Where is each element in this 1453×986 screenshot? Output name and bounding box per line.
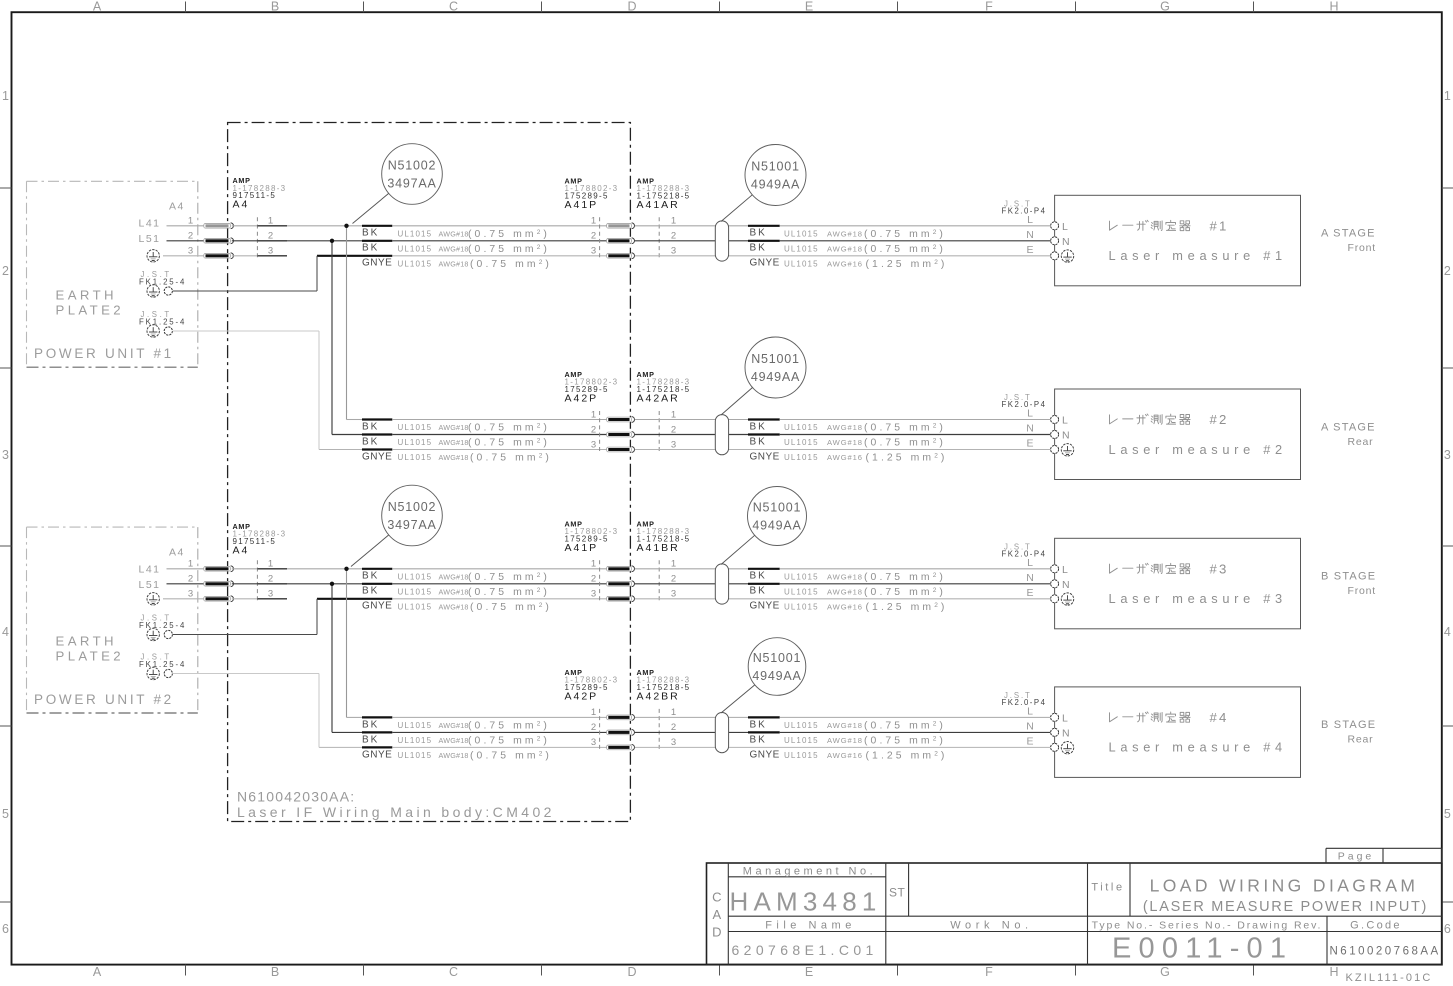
svg-text:UL1015: UL1015 <box>398 453 433 462</box>
svg-text:HAM3481: HAM3481 <box>730 887 882 917</box>
connector A4 circuit 1: mating separator dashed line <box>256 217 258 260</box>
svg-text:N51002: N51002 <box>388 159 437 173</box>
wire L circuit 4 to laser measure unit <box>635 716 1051 718</box>
svg-text:Type No.- Series No.- Drawing: Type No.- Series No.- Drawing Rev. <box>1092 919 1323 931</box>
connector A41P AMP part labels <box>565 176 619 211</box>
svg-text:3: 3 <box>671 246 676 257</box>
svg-text:GNYE: GNYE <box>750 258 780 269</box>
connector A42P/A42AR pin numbers <box>591 409 676 450</box>
svg-text:PLATE2: PLATE2 <box>56 648 125 663</box>
wire labels circuit 1 right side <box>750 228 948 270</box>
connector A41AR separator dashed line <box>658 217 660 260</box>
wire L41 stub circuit 1 <box>167 225 204 227</box>
svg-text:C: C <box>449 965 458 979</box>
connector A4 (power unit) circuit 1: labels <box>139 201 185 246</box>
svg-text:Title: Title <box>1091 881 1124 893</box>
svg-text:Page: Page <box>1338 850 1375 862</box>
svg-text:AWG#18: AWG#18 <box>439 259 469 268</box>
inner pin labels unit #4 <box>1062 712 1070 739</box>
earth wire from ring terminal 1 <box>173 599 317 635</box>
svg-text:GNYE: GNYE <box>750 451 780 462</box>
svg-text:AWG#18: AWG#18 <box>439 244 469 253</box>
svg-text:2: 2 <box>591 722 596 733</box>
balloon N51001 4949AA circuit 1 <box>721 145 806 222</box>
svg-text:UL1015: UL1015 <box>398 438 433 447</box>
cable marker oval circuit 2 <box>715 415 728 455</box>
svg-text:UL1015: UL1015 <box>784 423 819 432</box>
svg-text:1: 1 <box>671 559 676 570</box>
svg-text:BK: BK <box>750 734 767 745</box>
connector J.S.T FK2.0-P4 labels unit #2 <box>1002 393 1047 409</box>
svg-text:1: 1 <box>268 559 273 570</box>
svg-text:#2: #2 <box>1210 412 1229 427</box>
wire E circuit 2: GNYE thick segment <box>362 448 392 450</box>
branch wire L vertical <box>346 226 348 420</box>
svg-text:L: L <box>1027 557 1033 569</box>
svg-text:FK1.25-4: FK1.25-4 <box>139 660 186 669</box>
svg-text:4949AA: 4949AA <box>751 370 800 384</box>
wire E circuit 2 to laser measure unit <box>635 449 1051 451</box>
svg-text:F: F <box>985 0 993 14</box>
svg-text:AWG#16: AWG#16 <box>827 259 863 268</box>
wire N circuit 2 from branch corner <box>332 434 362 436</box>
connector A4 circuit 3: contact bars <box>204 566 234 602</box>
svg-text:AWG#18: AWG#18 <box>827 423 863 432</box>
earth ring terminal J.S.T FK1.25-4 (2) <box>139 653 186 680</box>
wires through connector A4 circuit 1 <box>232 226 287 256</box>
wire earth stub circuit 1 <box>163 255 204 257</box>
wire N circuit 1: BK thick segment <box>362 240 392 242</box>
svg-text:AWG#18: AWG#18 <box>439 438 469 447</box>
svg-text:FK1.25-4: FK1.25-4 <box>139 318 186 327</box>
svg-text:B STAGE: B STAGE <box>1321 571 1376 583</box>
wire E circuit 1: GNYE thick segment <box>317 255 392 257</box>
svg-text:N: N <box>1062 430 1070 442</box>
svg-text:2: 2 <box>268 231 273 242</box>
earth symbol unit #3 <box>1061 593 1073 605</box>
power unit #2 enclosure (dash-dot box) <box>27 527 198 713</box>
svg-text:B STAGE: B STAGE <box>1321 719 1376 731</box>
connector A42P AMP part labels <box>565 370 619 405</box>
svg-text:1: 1 <box>188 559 193 570</box>
connector A42P AMP part labels <box>565 668 619 703</box>
title block page cell <box>1326 848 1442 863</box>
wire L circuit 4 from branch corner <box>347 716 363 718</box>
svg-text:AWG#18: AWG#18 <box>827 438 863 447</box>
svg-text:FK2.0-P4: FK2.0-P4 <box>1002 400 1047 409</box>
wire L circuit 3 to junction <box>287 568 362 570</box>
earth ring terminal J.S.T FK1.25-4 (1) <box>139 614 186 641</box>
unit #4 name text <box>1109 710 1287 755</box>
svg-text:L: L <box>1062 564 1068 576</box>
svg-text:AWG#18: AWG#18 <box>439 721 469 730</box>
stage label unit #4 <box>1321 719 1376 746</box>
svg-text:1: 1 <box>591 216 596 227</box>
svg-text:3: 3 <box>268 246 273 257</box>
svg-text:C: C <box>449 0 458 14</box>
svg-text:AWG#18: AWG#18 <box>439 572 469 581</box>
svg-text:AWG#18: AWG#18 <box>439 453 469 462</box>
svg-text:G: G <box>1160 0 1170 14</box>
svg-text:4949AA: 4949AA <box>751 178 800 192</box>
laser measure unit #2 box <box>1055 389 1301 480</box>
svg-text:A4: A4 <box>233 544 250 556</box>
cable marker oval circuit 1 <box>715 221 728 261</box>
svg-text:AWG#18: AWG#18 <box>827 229 863 238</box>
wire E circuit 3 to connector A41P <box>392 598 606 600</box>
wire E circuit 1 to laser measure unit <box>635 255 1051 257</box>
svg-text:L: L <box>1027 214 1033 226</box>
svg-text:UL1015: UL1015 <box>784 751 819 760</box>
svg-text:N: N <box>1062 727 1070 739</box>
laser measure unit #1 box <box>1055 195 1301 285</box>
svg-text:L: L <box>1062 221 1068 233</box>
svg-text:BK: BK <box>750 719 767 730</box>
wire labels circuit 3 right side <box>750 571 948 613</box>
junction dot wire L <box>344 567 348 571</box>
svg-text:1: 1 <box>671 409 676 420</box>
wire N circuit 4: BK thick segment <box>362 731 392 733</box>
branch wire N vertical <box>331 584 333 733</box>
svg-text:N51001: N51001 <box>751 160 800 174</box>
svg-text:EARTH: EARTH <box>56 633 117 648</box>
terminal circles unit #3 <box>1051 565 1059 603</box>
svg-text:2: 2 <box>188 231 193 242</box>
svg-text:UL1015: UL1015 <box>398 751 433 760</box>
svg-text:N: N <box>1026 229 1034 241</box>
wire E circuit 4: GNYE thick segment <box>362 746 392 748</box>
svg-text:E: E <box>1026 736 1033 748</box>
stage label unit #2 <box>1321 421 1376 448</box>
connector A42BR AMP part labels <box>637 668 691 703</box>
connector A41P/A41BR pin numbers <box>591 559 676 600</box>
svg-text:3: 3 <box>188 589 193 600</box>
svg-text:4: 4 <box>2 625 9 639</box>
wire L circuit 1 to junction <box>287 225 362 227</box>
svg-text:1: 1 <box>2 89 9 103</box>
connector A4 circuit 1: pin numbers <box>188 216 273 257</box>
svg-text:BK: BK <box>362 719 379 730</box>
inner pin labels unit #2 <box>1062 415 1070 442</box>
svg-text:UL1015: UL1015 <box>784 721 819 730</box>
balloon N51002 3497AA circuit 3 <box>351 485 442 566</box>
svg-text:FK2.0-P4: FK2.0-P4 <box>1002 698 1047 707</box>
svg-text:UL1015: UL1015 <box>398 259 433 268</box>
power unit #1 labels <box>34 288 174 362</box>
svg-text:AWG#18: AWG#18 <box>827 244 863 253</box>
svg-text:BK: BK <box>750 243 767 254</box>
wire labels circuit 2 left side <box>362 421 552 463</box>
svg-text:EARTH: EARTH <box>56 288 117 303</box>
connector A42P separator dashed line <box>599 709 601 752</box>
connector J.S.T FK2.0-P4 labels unit #1 <box>1002 199 1047 215</box>
pin letters L N E unit #1 <box>1026 214 1034 256</box>
connector A4 circuit 1: contact bars <box>204 223 234 259</box>
power unit #1 enclosure (dash-dot box) <box>27 181 198 367</box>
earth wire from ring terminal 1 <box>173 256 317 291</box>
svg-text:BK: BK <box>362 571 379 582</box>
svg-text:AWG#18: AWG#18 <box>439 736 469 745</box>
svg-text:#1: #1 <box>1210 218 1229 233</box>
svg-text:4949AA: 4949AA <box>752 519 801 533</box>
svg-text:Laser measure #3: Laser measure #3 <box>1109 591 1287 606</box>
connector A4 circuit 3: AMP part labels <box>233 522 287 557</box>
connector A42P/A42BR pin numbers <box>591 707 676 748</box>
balloon N51001 4949AA circuit 2 <box>721 337 806 415</box>
cable marker oval circuit 3 <box>715 564 728 604</box>
connector A4 (power unit) circuit 3: labels <box>139 546 185 591</box>
svg-text:Laser measure #2: Laser measure #2 <box>1109 442 1287 457</box>
earth symbol at pin 3 circuit 3 <box>147 593 159 605</box>
wire L circuit 1 to laser measure unit <box>635 225 1051 227</box>
svg-text:Work No.: Work No. <box>950 920 1032 932</box>
connector A42P contact bars <box>607 715 635 751</box>
earth wire from ring terminal 2 <box>173 674 319 748</box>
svg-text:POWER UNIT #1: POWER UNIT #1 <box>34 346 174 361</box>
svg-text:3: 3 <box>591 589 596 600</box>
pin letters L N E unit #2 <box>1026 408 1034 450</box>
svg-text:GNYE: GNYE <box>750 749 780 760</box>
wire L circuit 3 to connector A41P <box>392 568 606 570</box>
svg-text:H: H <box>1329 965 1338 979</box>
svg-text:A4: A4 <box>233 199 250 211</box>
wire E circuit 4 to connector A42P <box>392 746 606 748</box>
wire earth stub circuit 3 <box>163 598 204 600</box>
wire L circuit 2 from branch corner <box>347 419 363 421</box>
svg-text:UL1015: UL1015 <box>398 587 433 596</box>
enclosure N610042030AA Laser IF Wiring Main body CM402 (chain-line box) <box>228 123 631 822</box>
wire L51 stub circuit 3 <box>167 583 204 585</box>
svg-text:5: 5 <box>1444 807 1451 821</box>
svg-text:A42P: A42P <box>565 393 599 405</box>
svg-text:UL1015: UL1015 <box>398 602 433 611</box>
svg-text:BK: BK <box>362 586 379 597</box>
terminal circles unit #2 <box>1051 416 1059 454</box>
svg-text:H: H <box>1329 0 1338 14</box>
pin letters L N E unit #4 <box>1026 706 1034 748</box>
svg-text:4949AA: 4949AA <box>752 669 801 683</box>
svg-text:6: 6 <box>1444 922 1451 936</box>
wire labels circuit 1 left side <box>362 228 552 270</box>
svg-text:AWG#18: AWG#18 <box>439 602 469 611</box>
svg-text:3: 3 <box>188 246 193 257</box>
wire E circuit 1 to connector A41P <box>392 255 606 257</box>
svg-text:GNYE: GNYE <box>750 601 780 612</box>
svg-text:A42P: A42P <box>565 690 599 702</box>
wire L circuit 1: BK thick segment <box>362 225 392 227</box>
svg-text:A: A <box>93 965 102 979</box>
wire E circuit 3: GNYE thick segment <box>317 598 392 600</box>
pin letters L N E unit #3 <box>1026 557 1034 599</box>
wire N circuit 4 to connector A42P <box>392 731 606 733</box>
svg-text:2: 2 <box>2 264 9 278</box>
svg-text:N51002: N51002 <box>388 500 437 514</box>
power unit #2 labels <box>34 633 174 707</box>
svg-text:A4: A4 <box>169 546 185 558</box>
svg-text:AWG#16: AWG#16 <box>827 453 863 462</box>
svg-text:4: 4 <box>1444 625 1451 639</box>
svg-text:GNYE: GNYE <box>362 601 392 612</box>
balloon N51001 4949AA circuit 4 <box>721 638 806 713</box>
svg-text:2: 2 <box>1444 264 1451 278</box>
earth symbol at pin 3 circuit 1 <box>147 250 159 262</box>
svg-text:UL1015: UL1015 <box>784 438 819 447</box>
svg-text:KZIL111-01C: KZIL111-01C <box>1346 972 1433 984</box>
cable marker oval circuit 4 <box>715 713 728 753</box>
svg-text:3: 3 <box>591 439 596 450</box>
svg-text:AWG#18: AWG#18 <box>439 587 469 596</box>
svg-text:Management No.: Management No. <box>743 866 876 878</box>
svg-text:N: N <box>1062 236 1070 248</box>
connector J.S.T FK2.0-P4 labels unit #4 <box>1002 691 1047 707</box>
svg-text:File Name: File Name <box>765 920 856 932</box>
svg-text:A: A <box>712 907 721 922</box>
junction dot wire N <box>330 582 334 586</box>
svg-text:E: E <box>805 0 813 14</box>
svg-text:L51: L51 <box>139 579 161 591</box>
svg-text:AWG#18: AWG#18 <box>439 423 469 432</box>
connector A41P separator dashed line <box>599 560 601 603</box>
svg-text:1: 1 <box>188 216 193 227</box>
svg-text:N51001: N51001 <box>753 501 802 515</box>
wire L circuit 3 to laser measure unit <box>635 568 1051 570</box>
svg-text:UL1015: UL1015 <box>398 572 433 581</box>
svg-text:3: 3 <box>591 246 596 257</box>
svg-text:L: L <box>1027 706 1033 718</box>
connector A4 circuit 3: mating separator dashed line <box>256 560 258 603</box>
wires through connector A4 circuit 3 <box>232 569 287 599</box>
svg-text:AWG#18: AWG#18 <box>827 721 863 730</box>
svg-text:UL1015: UL1015 <box>784 229 819 238</box>
svg-text:2: 2 <box>671 574 676 585</box>
svg-text:BK: BK <box>750 586 767 597</box>
svg-text:BK: BK <box>362 421 379 432</box>
wire N circuit 2: BK thick segment <box>362 433 392 435</box>
wire N circuit 3 to laser measure unit <box>635 583 1051 585</box>
svg-text:N51001: N51001 <box>751 352 800 366</box>
svg-text:AWG#18: AWG#18 <box>827 587 863 596</box>
svg-text:LOAD WIRING DIAGRAM: LOAD WIRING DIAGRAM <box>1150 876 1419 896</box>
svg-text:UL1015: UL1015 <box>784 259 819 268</box>
connector A41P contact bars <box>607 566 635 602</box>
svg-text:2: 2 <box>671 231 676 242</box>
svg-text:GNYE: GNYE <box>362 749 392 760</box>
svg-text:2: 2 <box>591 574 596 585</box>
svg-text:UL1015: UL1015 <box>398 736 433 745</box>
wire L circuit 1 to connector A41P <box>392 225 606 227</box>
svg-text:N610042030AA:: N610042030AA: <box>237 789 355 805</box>
svg-text:N51001: N51001 <box>753 651 802 665</box>
svg-text:3497AA: 3497AA <box>387 177 436 191</box>
wire labels circuit 3 left side <box>362 571 552 613</box>
svg-text:A STAGE: A STAGE <box>1321 421 1376 433</box>
connector A42BR separator dashed line <box>658 709 660 752</box>
wire L circuit 2 to laser measure unit <box>635 419 1051 421</box>
terminal circles unit #1 <box>1051 222 1059 260</box>
svg-text:L: L <box>1062 415 1068 427</box>
svg-text:AWG#16: AWG#16 <box>827 602 863 611</box>
wire L circuit 2: BK thick segment <box>362 418 392 420</box>
svg-text:F: F <box>985 965 993 979</box>
wire N circuit 2 to laser measure unit <box>635 434 1051 436</box>
svg-text:A41BR: A41BR <box>637 542 680 554</box>
wire E circuit 2 to connector A42P <box>392 449 606 451</box>
svg-text:UL1015: UL1015 <box>398 423 433 432</box>
wire E circuit 3 to laser measure unit <box>635 598 1051 600</box>
svg-text:GNYE: GNYE <box>362 258 392 269</box>
connector A41P/A41AR pin numbers <box>591 216 676 257</box>
svg-text:E: E <box>1026 438 1033 450</box>
svg-text:3497AA: 3497AA <box>387 518 436 532</box>
svg-text:UL1015: UL1015 <box>398 244 433 253</box>
svg-text:E: E <box>1026 587 1033 599</box>
svg-text:N: N <box>1062 579 1070 591</box>
svg-text:BK: BK <box>362 228 379 239</box>
svg-text:UL1015: UL1015 <box>398 229 433 238</box>
svg-text:Front: Front <box>1348 242 1377 254</box>
svg-text:GNYE: GNYE <box>362 451 392 462</box>
svg-text:A41AR: A41AR <box>637 199 680 211</box>
wire E circuit 2 from branch corner <box>319 449 362 451</box>
earth symbol unit #1 <box>1061 250 1073 262</box>
svg-text:3: 3 <box>671 439 676 450</box>
earth symbol unit #4 <box>1061 742 1073 754</box>
connector A41P separator dashed line <box>599 217 601 260</box>
svg-text:A: A <box>93 0 102 14</box>
svg-text:1: 1 <box>268 216 273 227</box>
svg-text:1: 1 <box>671 707 676 718</box>
unit #3 name text <box>1109 561 1287 606</box>
laser measure unit #4 box <box>1055 687 1301 778</box>
svg-text:(LASER MEASURE POWER INPUT): (LASER MEASURE POWER INPUT) <box>1143 899 1428 915</box>
svg-text:1: 1 <box>671 216 676 227</box>
title block texts <box>712 866 1441 965</box>
svg-text:AWG#16: AWG#16 <box>827 751 863 760</box>
svg-text:UL1015: UL1015 <box>784 602 819 611</box>
connector A41P contact bars <box>607 223 635 259</box>
svg-text:AWG#18: AWG#18 <box>439 229 469 238</box>
svg-text:G: G <box>1160 965 1170 979</box>
wire N circuit 3: BK thick segment <box>362 583 392 585</box>
svg-text:A41P: A41P <box>565 199 599 211</box>
wire L circuit 2 to connector A42P <box>392 419 606 421</box>
svg-text:A42AR: A42AR <box>637 393 680 405</box>
wire labels circuit 4 right side <box>750 719 948 761</box>
svg-text:UL1015: UL1015 <box>784 572 819 581</box>
junction dot wire L <box>344 224 348 228</box>
branch wire L vertical <box>346 569 348 718</box>
svg-text:2: 2 <box>188 574 193 585</box>
svg-text:POWER UNIT #2: POWER UNIT #2 <box>34 692 174 707</box>
svg-text:AWG#18: AWG#18 <box>827 736 863 745</box>
connector A4 circuit 1: AMP part labels <box>233 176 287 211</box>
balloon N51002 3497AA circuit 1 <box>353 144 443 224</box>
svg-text:N: N <box>1026 721 1034 733</box>
svg-text:B: B <box>271 0 279 14</box>
svg-text:#4: #4 <box>1210 710 1229 725</box>
svg-text:6: 6 <box>2 922 9 936</box>
wire N circuit 3 to connector A41P <box>392 583 606 585</box>
balloon N51001 4949AA circuit 3 <box>721 487 807 565</box>
wire N circuit 1 to junction <box>287 240 362 242</box>
svg-text:3: 3 <box>591 737 596 748</box>
inner pin labels unit #1 <box>1062 221 1070 248</box>
svg-text:E: E <box>805 965 813 979</box>
connector A41AR AMP part labels <box>637 176 691 211</box>
svg-text:D: D <box>627 0 636 14</box>
earth symbol unit #2 <box>1061 444 1073 456</box>
wire N circuit 3 to junction <box>287 583 362 585</box>
